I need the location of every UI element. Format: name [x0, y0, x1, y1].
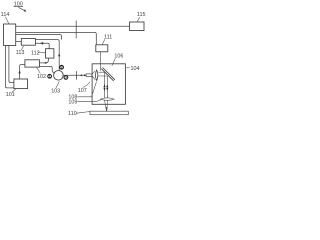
arrow up on wire B	[58, 53, 60, 56]
svg-text:3: 3	[61, 66, 63, 70]
port label 3	[60, 65, 64, 69]
label 104	[131, 66, 140, 72]
box 111	[96, 45, 108, 52]
label 112	[31, 50, 40, 56]
label 114	[1, 12, 10, 18]
svg-text:109: 109	[68, 99, 77, 105]
wire D 112-to-102	[39, 58, 48, 63]
wire B 113-to-circulator port3	[35, 40, 59, 71]
label 106	[114, 54, 123, 60]
wire L2 114-to-111	[16, 32, 97, 44]
svg-text:2: 2	[65, 76, 67, 80]
label 100	[14, 2, 23, 8]
port label 1	[48, 74, 52, 78]
svg-text:115: 115	[137, 12, 146, 18]
tick fiber joint lower	[75, 71, 77, 80]
label 113	[16, 50, 25, 56]
control wire 114-to-101 inner	[9, 46, 14, 83]
label 111	[104, 34, 112, 40]
fiber ferrule 107	[86, 74, 92, 77]
wire 114-to-113	[16, 41, 22, 43]
beam arrows up-down left	[103, 84, 105, 91]
arrow up on 101-102 wire	[18, 70, 20, 73]
double arrow bidirectional	[80, 74, 82, 76]
svg-text:112: 112	[31, 50, 40, 56]
wire 101-to-102	[20, 65, 25, 80]
svg-text:110: 110	[68, 111, 77, 117]
circulator 103	[54, 71, 64, 81]
wire L1 114-to-115	[16, 25, 130, 27]
label 110	[68, 111, 77, 117]
svg-text:104: 104	[131, 66, 140, 72]
beam vertical left	[103, 72, 105, 98]
label 115	[137, 12, 146, 18]
box 114 controller	[4, 24, 16, 46]
lens 109 horizontal	[100, 98, 114, 101]
port label 2	[64, 76, 68, 80]
label 107	[78, 88, 87, 94]
rays lens-to-mirror	[98, 72, 107, 76]
lens 108 vertical	[96, 70, 98, 81]
beam vertical right	[106, 76, 108, 98]
box 104 processing head	[92, 64, 125, 105]
label 103	[51, 88, 60, 94]
svg-text:106: 106	[114, 54, 123, 60]
box 115	[130, 22, 145, 31]
box 113	[21, 39, 35, 46]
box 101	[14, 79, 28, 89]
laser beam 111-to-mirror	[100, 52, 102, 71]
svg-text:114: 114	[1, 12, 10, 18]
mirror 106 dichroic double line	[101, 68, 115, 81]
label 101	[6, 92, 15, 98]
box 102	[25, 60, 40, 67]
arrow left on wire C	[40, 42, 43, 45]
converging beam to focus	[105, 101, 108, 112]
workpiece 110	[90, 111, 128, 115]
tick fiber joint upper	[75, 21, 77, 39]
svg-text:102: 102	[37, 74, 46, 80]
svg-text:103: 103	[51, 88, 60, 94]
beam arrows up-down right	[106, 84, 108, 91]
control wire 114-to-101 outer	[5, 46, 14, 88]
box 112	[46, 49, 54, 58]
diverging cone	[92, 71, 95, 80]
svg-text:113: 113	[16, 50, 25, 56]
label 108	[68, 94, 77, 100]
wire A 114-to-junction	[16, 35, 62, 40]
wire C 112-to-113	[35, 43, 49, 48]
wire E 102-to-circulator port1	[39, 66, 54, 72]
label 102	[37, 74, 46, 80]
arrow left on wire D	[44, 62, 47, 64]
wire port2-to-collimator	[63, 74, 86, 76]
svg-text:101: 101	[6, 92, 15, 98]
svg-text:107: 107	[78, 88, 87, 94]
label 109	[68, 99, 77, 105]
svg-text:111: 111	[104, 34, 112, 40]
svg-text:1: 1	[49, 75, 51, 79]
